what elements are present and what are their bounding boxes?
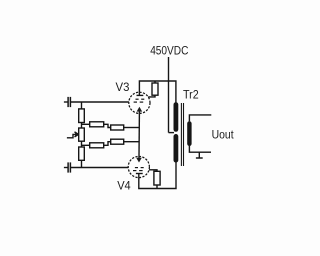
svg-text:Tr2: Tr2 [183, 88, 199, 102]
transformer Tr2 core [181, 103, 183, 166]
tube V3 envelope [129, 92, 150, 113]
resistor R6 (row2 right horizontal) [111, 139, 124, 144]
wire B+ rail vertical [168, 57, 170, 133]
wire R2 to bottom rail [81, 160, 83, 167]
wire center tap to primary [169, 132, 175, 134]
wire node to row1 [82, 123, 90, 125]
wire pot to R2 [81, 141, 83, 147]
wire node to row2 [82, 144, 90, 146]
svg-text:Uout: Uout [212, 127, 235, 141]
wire V4 plate line [139, 161, 176, 189]
wire secondary bottom [189, 146, 211, 152]
tube V4 plate [136, 174, 143, 178]
tube V4 envelope [128, 156, 149, 177]
tube V3 cathode arrow [137, 107, 143, 114]
resistor R2 (bottom left vertical) [79, 147, 85, 160]
resistor R7 (V3 screen) [148, 81, 158, 97]
wire cathode link V3-V4 [138, 113, 140, 156]
wire junction drop to R1 [81, 102, 83, 109]
potentiometer P1 body [79, 128, 85, 141]
wire row2 jog [104, 142, 111, 146]
wire V3 grid [70, 101, 128, 103]
transformer Tr2 secondary winding [187, 123, 191, 143]
svg-text:450VDC: 450VDC [150, 43, 189, 57]
capacitor C-bot [64, 162, 71, 172]
potentiometer P1 wiper arrow [67, 132, 79, 138]
ground [196, 152, 203, 158]
tube V4 cathode arrow [136, 157, 142, 163]
tube V3 grids (dashes) [134, 99, 145, 102]
wire V4 grid [70, 167, 128, 169]
wire row2 to cathode line [124, 141, 140, 143]
resistor R3 (row1 left horizontal) [90, 122, 104, 127]
svg-text:V3: V3 [116, 80, 130, 94]
resistor R4 (row1 right horizontal) [111, 125, 124, 130]
resistor R8 (V4 screen) [149, 170, 160, 189]
tube V3 plate [137, 92, 144, 95]
transformer Tr2 primary lower winding [173, 136, 178, 160]
wire row1 jog [104, 124, 111, 127]
tube V4 grids (dashes) [133, 168, 144, 171]
wire R1 to pot [81, 123, 83, 129]
transformer Tr2 primary upper winding [173, 105, 178, 130]
wire secondary top [189, 115, 211, 122]
wire V3 plate line [139, 81, 176, 105]
svg-text:V4: V4 [117, 178, 131, 192]
capacitor C-top [64, 97, 71, 107]
resistor R5 (row2 left horizontal) [90, 143, 104, 148]
wire row1 to cathode line [124, 127, 140, 129]
resistor R1 (top left vertical) [79, 109, 85, 123]
